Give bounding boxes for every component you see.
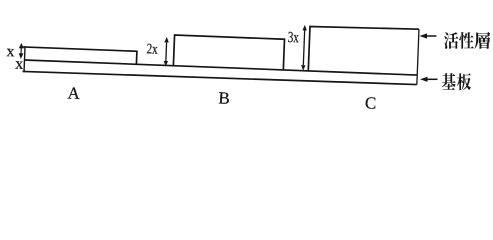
patent figure: three layer thicknesses x / 2x / 3x on a substrate — [0, 0, 493, 120]
leader arrow to active layer (C right edge) — [427, 35, 437, 37]
svg-text:2x: 2x — [146, 41, 158, 57]
dimension arrow x (layer A thickness) — [20, 48, 22, 53]
layer B outline (thickness 2x) — [173, 35, 284, 70]
label 活性層 (active layer) — [444, 32, 490, 49]
wire: substrate top line (base of A, B, C) — [25, 60, 418, 75]
dimension arrow 3x (layer C thickness) — [303, 30, 304, 65]
svg-text:3x: 3x — [287, 29, 299, 46]
leader arrow to substrate — [428, 78, 438, 80]
svg-text:A: A — [67, 84, 81, 103]
layer A outline (thickness x) — [23, 47, 137, 64]
svg-text:C: C — [365, 93, 377, 112]
svg-text:x: x — [6, 43, 15, 60]
dimension arrow 2x (layer B thickness) — [165, 42, 168, 60]
wire: left edge of layer A and substrate — [24, 46, 25, 72]
wire: right edge of layer C / substrate — [417, 29, 419, 84]
label 基板 (substrate) — [442, 73, 471, 90]
wire: substrate bottom line — [23, 69, 417, 86]
svg-text:B: B — [218, 88, 230, 107]
svg-text:x: x — [15, 56, 24, 73]
layer C outline (thickness 3x) — [308, 25, 419, 75]
